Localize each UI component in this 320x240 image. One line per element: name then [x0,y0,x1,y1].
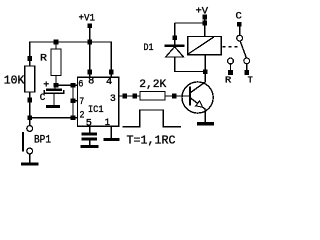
svg-text:IC1: IC1 [88,105,104,116]
svg-text:R: R [225,75,232,86]
svg-text:+V1: +V1 [79,14,96,25]
svg-text:3: 3 [110,94,116,105]
svg-text:T=1,1RC: T=1,1RC [127,133,176,147]
svg-text:4: 4 [106,77,112,88]
svg-text:C: C [40,93,46,104]
svg-text:R: R [40,52,48,64]
svg-text:+V: +V [196,7,209,18]
svg-text:C: C [236,12,242,23]
svg-text:6: 6 [78,80,83,91]
svg-text:+: + [43,81,49,92]
svg-text:5: 5 [86,119,92,130]
svg-text:2,2K: 2,2K [139,79,166,91]
svg-text:8: 8 [88,77,94,88]
svg-text:7: 7 [79,97,84,108]
svg-text:BP1: BP1 [34,135,51,147]
svg-text:2: 2 [80,110,85,121]
svg-text:10K: 10K [4,75,25,88]
svg-text:T: T [248,75,253,86]
svg-text:1: 1 [105,118,110,129]
svg-text:D1: D1 [144,43,154,54]
